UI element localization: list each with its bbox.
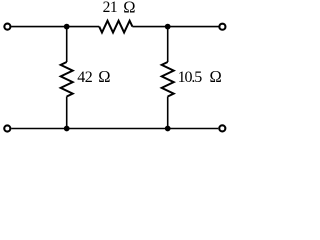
svg-text:42: 42 bbox=[77, 69, 93, 86]
svg-text:10.5: 10.5 bbox=[178, 69, 203, 86]
svg-text:21: 21 bbox=[103, 0, 118, 16]
svg-text:Ω: Ω bbox=[98, 67, 110, 86]
svg-text:Ω: Ω bbox=[210, 67, 222, 86]
svg-text:Ω: Ω bbox=[123, 0, 135, 17]
